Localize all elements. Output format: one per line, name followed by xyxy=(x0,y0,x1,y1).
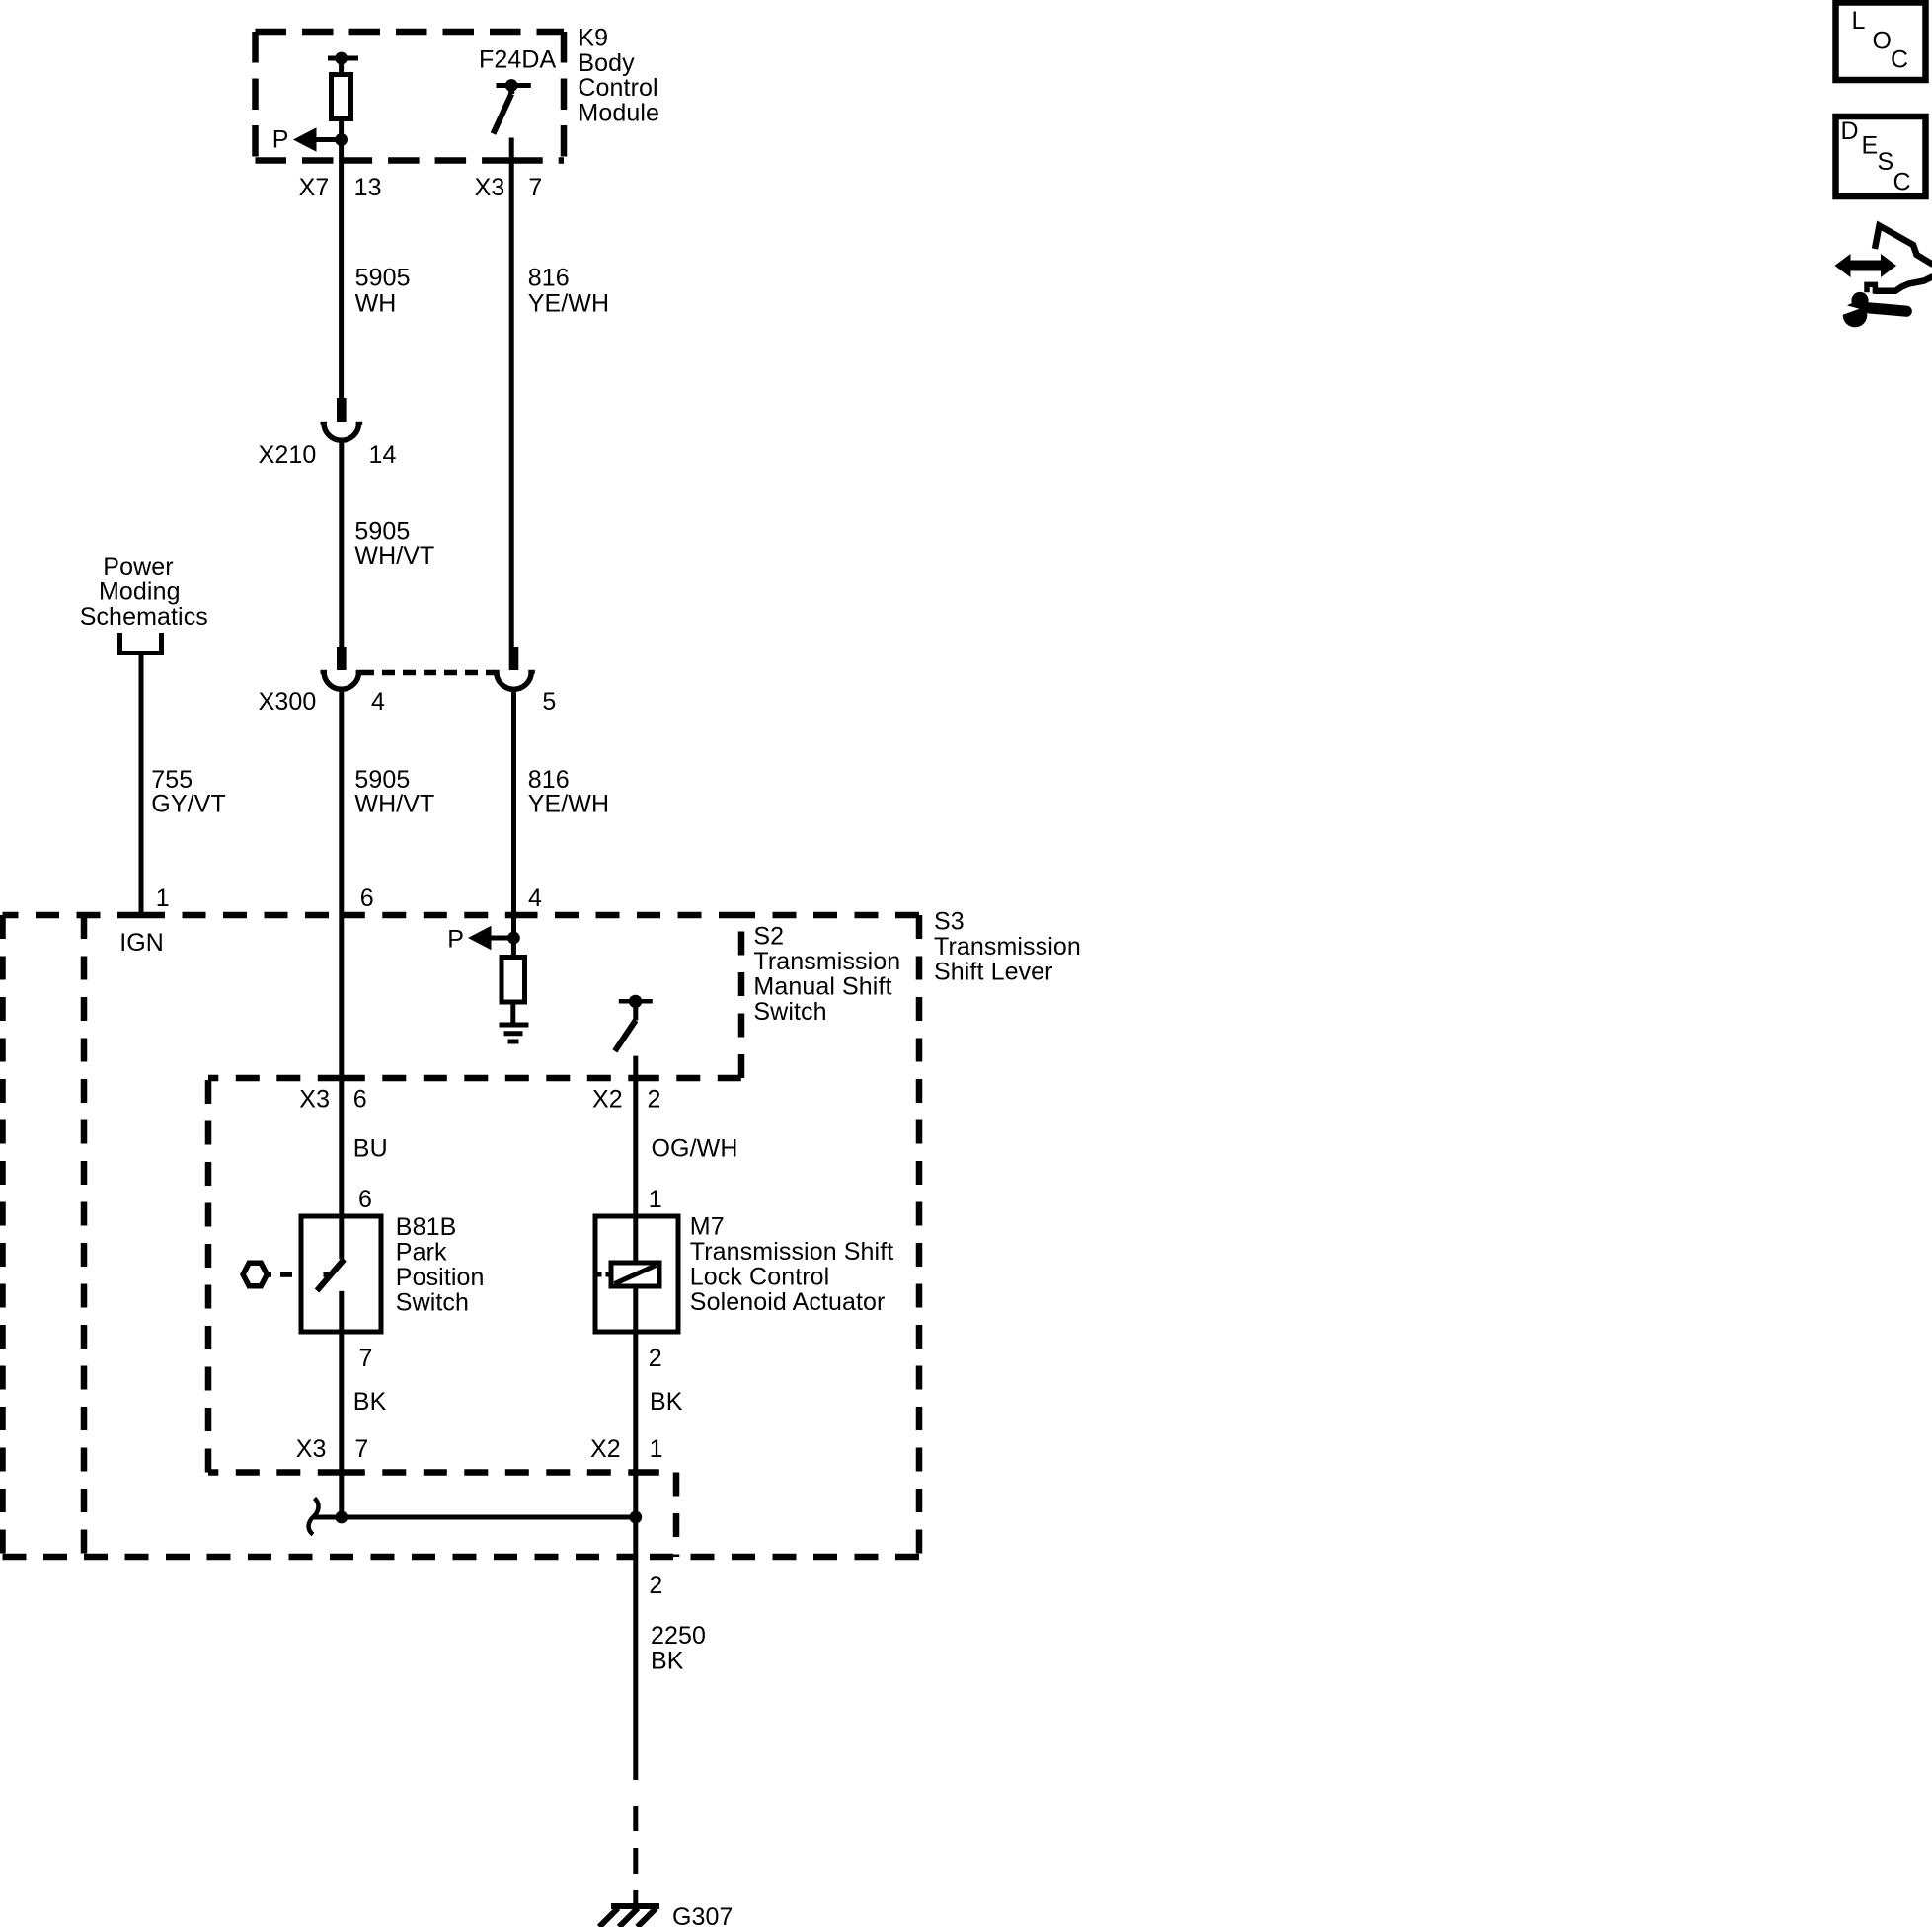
wire M7 to splice xyxy=(633,1332,638,1517)
svg-text:816: 816 xyxy=(528,264,570,291)
routing icon wrench xyxy=(1838,292,1912,327)
switch S2 lever xyxy=(633,1001,638,1020)
label S2 Transmission Manual Shift Switch xyxy=(753,922,900,1026)
B81B lever xyxy=(317,1260,345,1291)
node bar (K9 internal supply) xyxy=(328,56,358,61)
M7 coil dashed stub xyxy=(596,1272,602,1277)
dashed link between X300 cavities xyxy=(361,670,495,676)
svg-text:BU: BU xyxy=(353,1135,388,1163)
B81B bottom contact xyxy=(339,1291,344,1332)
svg-text:6: 6 xyxy=(360,885,374,912)
wire 816 YE/WH lower xyxy=(511,689,516,938)
ground G307 symbol xyxy=(599,1906,659,1927)
wire xyxy=(511,938,516,958)
wire 5905 WH/VT xyxy=(339,440,344,647)
wire (K9 pin X3-7 down) xyxy=(509,138,514,648)
label B81B Park Position Switch xyxy=(396,1213,485,1317)
svg-text:Body: Body xyxy=(578,49,635,77)
wire 5905 WH/VT lower xyxy=(339,689,344,1216)
P signal arrow (S2) xyxy=(468,926,492,950)
connector X300 pin 4 female cup xyxy=(324,672,359,690)
B81B actuator dashed link xyxy=(266,1272,271,1277)
svg-text:YE/WH: YE/WH xyxy=(528,791,609,818)
svg-text:Lock Control: Lock Control xyxy=(690,1263,830,1290)
connector X300 pin 4 male pin xyxy=(337,647,347,670)
svg-text:Position: Position xyxy=(396,1264,485,1291)
svg-text:X3: X3 xyxy=(299,1086,330,1114)
svg-text:S2: S2 xyxy=(753,922,784,950)
svg-text:C: C xyxy=(1893,169,1911,196)
resistor (K9 internal pull-up) xyxy=(332,75,351,119)
LOC reference box xyxy=(1836,3,1926,81)
svg-text:L: L xyxy=(1852,7,1866,35)
wire xyxy=(339,119,344,140)
svg-text:E: E xyxy=(1862,132,1879,160)
label Power Moding Schematics xyxy=(80,553,208,631)
svg-text:Solenoid Actuator: Solenoid Actuator xyxy=(690,1288,886,1316)
earth ground (S2 internal) xyxy=(500,1025,529,1041)
svg-text:7: 7 xyxy=(528,174,542,201)
svg-text:X3: X3 xyxy=(296,1435,327,1463)
label K9 Body Control Module xyxy=(578,24,659,126)
B81B Park Position Switch box xyxy=(301,1216,381,1332)
svg-text:Schematics: Schematics xyxy=(80,603,208,631)
wire 2250 BK xyxy=(633,1517,638,1780)
P signal arrow xyxy=(293,127,317,151)
svg-text:GY/VT: GY/VT xyxy=(151,791,226,818)
svg-text:Transmission: Transmission xyxy=(753,948,900,975)
splice horizontal wire xyxy=(314,1515,636,1520)
M7 solenoid actuator box xyxy=(595,1216,678,1332)
svg-text:D: D xyxy=(1841,117,1859,145)
wire xyxy=(339,58,344,76)
svg-text:Park: Park xyxy=(396,1239,447,1267)
svg-text:BK: BK xyxy=(353,1388,387,1416)
B81B top contact xyxy=(339,1216,344,1259)
svg-text:P: P xyxy=(447,925,464,953)
svg-text:X2: X2 xyxy=(590,1435,621,1463)
svg-text:F24DA: F24DA xyxy=(479,46,557,74)
inner assembly dashed box right notch edge xyxy=(673,1473,680,1558)
svg-text:X210: X210 xyxy=(259,441,317,469)
svg-text:Module: Module xyxy=(578,100,659,127)
module K9 Body Control Module dashed box xyxy=(256,32,565,161)
svg-text:WH/VT: WH/VT xyxy=(354,791,434,818)
routing icon double arrow xyxy=(1835,254,1897,277)
junction dot splice right xyxy=(629,1511,642,1524)
svg-text:WH: WH xyxy=(355,289,397,317)
svg-text:K9: K9 xyxy=(578,24,608,51)
M7 wire to coil xyxy=(633,1216,638,1263)
switch S2 pivot dot xyxy=(629,995,642,1008)
S3 inner-left dashed edge xyxy=(81,915,88,1557)
svg-text:Transmission Shift: Transmission Shift xyxy=(690,1238,894,1266)
svg-text:4: 4 xyxy=(371,688,385,716)
off-page bracket xyxy=(120,633,162,654)
svg-text:2: 2 xyxy=(648,1086,661,1114)
svg-text:1: 1 xyxy=(649,1186,662,1213)
wire to P arrow xyxy=(492,936,514,941)
svg-text:C: C xyxy=(1891,46,1908,74)
junction dot node P xyxy=(335,133,348,146)
resistor (S2 internal) xyxy=(502,958,525,1003)
svg-text:Moding: Moding xyxy=(99,578,181,606)
DESC reference box xyxy=(1836,116,1926,196)
svg-text:X300: X300 xyxy=(259,688,317,716)
svg-text:BK: BK xyxy=(651,1648,684,1675)
connector X300 pin 5 male pin xyxy=(509,647,519,670)
svg-text:WH/VT: WH/VT xyxy=(354,542,434,570)
switch F24DA lever xyxy=(508,86,514,95)
B81B actuator hexagon xyxy=(243,1263,267,1286)
svg-text:2: 2 xyxy=(649,1345,662,1372)
S2 Transmission Manual Shift Switch dashed box right edge xyxy=(738,915,745,1078)
svg-text:Switch: Switch xyxy=(753,998,826,1026)
connector X210 male pin xyxy=(337,398,347,422)
junction dot at resistor top xyxy=(335,52,348,65)
svg-text:Transmission: Transmission xyxy=(934,933,1081,961)
svg-text:4: 4 xyxy=(528,885,542,912)
svg-text:X2: X2 xyxy=(592,1086,623,1114)
inner assembly dashed box bottom edge xyxy=(208,1469,342,1476)
svg-text:O: O xyxy=(1873,28,1893,55)
svg-text:14: 14 xyxy=(369,441,397,469)
svg-text:816: 816 xyxy=(528,766,570,794)
svg-text:7: 7 xyxy=(359,1345,373,1372)
svg-text:S3: S3 xyxy=(934,908,965,936)
splice continuation curl xyxy=(309,1499,319,1535)
switch F24DA contact bar xyxy=(497,83,531,88)
svg-text:5: 5 xyxy=(542,688,556,716)
wire (S2 switch to M7) xyxy=(633,1056,638,1216)
svg-text:5905: 5905 xyxy=(355,264,411,291)
svg-text:Control: Control xyxy=(578,74,657,102)
connector X210 female cup xyxy=(324,424,359,441)
svg-text:6: 6 xyxy=(353,1086,367,1114)
svg-text:X3: X3 xyxy=(475,174,505,201)
label S3 Transmission Shift Lever xyxy=(934,908,1081,986)
svg-text:5905: 5905 xyxy=(354,766,410,794)
svg-text:1: 1 xyxy=(156,885,170,912)
svg-text:6: 6 xyxy=(358,1186,372,1213)
svg-text:S: S xyxy=(1878,148,1894,176)
svg-text:IGN: IGN xyxy=(119,929,164,957)
svg-text:Switch: Switch xyxy=(396,1289,469,1317)
dashed wire to G307 xyxy=(633,1806,638,1831)
M7 solenoid diagonal xyxy=(615,1266,657,1284)
svg-text:YE/WH: YE/WH xyxy=(528,289,609,317)
svg-text:P: P xyxy=(272,126,289,154)
switch F24DA pivot dot xyxy=(505,79,518,92)
wire xyxy=(510,1002,515,1025)
label M7 Transmission Shift Lock Control Solenoid Actuator xyxy=(690,1212,894,1316)
routing icon body outline xyxy=(1867,226,1932,294)
svg-text:2: 2 xyxy=(649,1572,662,1599)
wire 755 GY/VT xyxy=(139,654,144,916)
svg-text:2250: 2250 xyxy=(651,1622,706,1650)
junction dot splice left xyxy=(335,1511,348,1524)
wire (K9 pin X7-13 down) xyxy=(339,140,344,399)
svg-text:X7: X7 xyxy=(299,174,330,201)
svg-text:755: 755 xyxy=(151,766,193,794)
svg-text:13: 13 xyxy=(354,174,382,201)
svg-text:Manual Shift: Manual Shift xyxy=(753,973,891,1001)
inner assembly dashed box left edge xyxy=(205,1078,212,1473)
svg-text:BK: BK xyxy=(650,1388,683,1416)
svg-text:7: 7 xyxy=(354,1435,368,1463)
S3 Transmission Shift Lever dashed box xyxy=(3,915,920,1557)
svg-text:OG/WH: OG/WH xyxy=(652,1135,738,1163)
switch S2 contact bar xyxy=(619,999,653,1004)
svg-text:M7: M7 xyxy=(690,1212,725,1240)
S2 bottom / inner box top dashed edge xyxy=(208,1075,342,1082)
junction dot (816 node) xyxy=(507,932,520,945)
svg-text:G307: G307 xyxy=(672,1903,734,1927)
wire to P arrow xyxy=(317,137,342,142)
connector X300 pin 5 female cup xyxy=(497,672,532,690)
svg-text:Shift Lever: Shift Lever xyxy=(934,959,1053,986)
M7 solenoid coil rect xyxy=(611,1263,659,1286)
wire B81B to splice xyxy=(339,1332,344,1517)
M7 wire from coil xyxy=(633,1286,638,1332)
svg-text:B81B: B81B xyxy=(396,1213,457,1241)
svg-text:1: 1 xyxy=(650,1435,663,1463)
svg-text:Power: Power xyxy=(103,553,173,580)
